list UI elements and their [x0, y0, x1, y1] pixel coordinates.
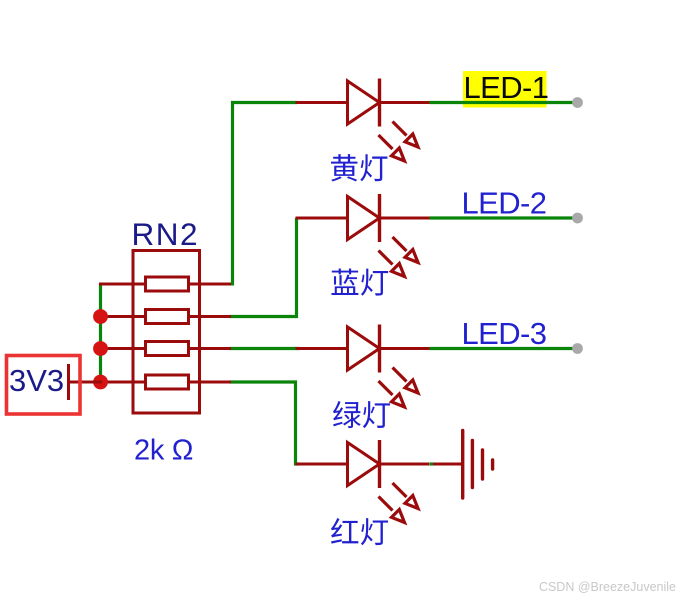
LED D-red: cathode bar	[378, 440, 381, 488]
RN2 internal resistor element 3	[146, 342, 189, 356]
svg-text:RN2: RN2	[132, 216, 200, 252]
terminal dot (net endpoint)	[572, 97, 583, 108]
LED D-yellow: cathode pin	[380, 101, 430, 104]
RN2 pin 5 (right)	[188, 381, 231, 384]
svg-text:CSDN @BreezeJuvenile: CSDN @BreezeJuvenile	[539, 580, 676, 594]
wire: net LED-4 from RN2 pin row 4 down to red LED	[230, 382, 300, 464]
wire: net LED-3 to terminal	[430, 347, 578, 350]
LED D-green: emission arrow	[393, 368, 419, 394]
LED D-green: cathode bar	[378, 325, 381, 373]
label red lamp 红灯	[331, 518, 388, 545]
LED D-blue: emission arrow	[379, 251, 405, 277]
LED D-blue: emission arrow	[393, 237, 419, 263]
label green lamp 绿灯	[333, 401, 390, 428]
wire: net LED-2 from RN2 pin row 2	[230, 218, 297, 317]
LED D-blue: triangle	[348, 197, 380, 240]
LED D-red: anode pin	[296, 463, 349, 466]
RN2 pin 4 (left)	[99, 381, 146, 384]
ground (power ground symbol)	[463, 431, 493, 499]
LED D-green: cathode pin	[380, 347, 430, 350]
LED D-yellow: cathode bar	[378, 79, 381, 127]
net label LED-1 highlight background	[463, 71, 547, 108]
LED D-yellow: emission arrow	[379, 135, 405, 161]
LED D-green: anode pin	[296, 347, 349, 350]
label yellow lamp 黄灯	[331, 154, 387, 181]
RN2 pin 7 (right)	[188, 315, 231, 318]
RN2 pin 8 (right)	[188, 283, 231, 286]
LED D-blue: cathode pin	[380, 217, 430, 220]
LED D-yellow: anode pin	[296, 101, 349, 104]
wire junction on 3V3 rail	[93, 375, 108, 390]
LED D-blue: anode pin	[296, 217, 349, 220]
svg-text:LED-1: LED-1	[464, 70, 549, 105]
LED D-green: emission arrow	[379, 381, 405, 407]
wire: short green stub at red LED cathode	[430, 462, 433, 465]
resistor network RN2: body outline	[133, 251, 200, 414]
RN2 internal resistor element 1	[146, 277, 189, 291]
RN2 internal resistor element 2	[146, 310, 189, 324]
RN2 pin 1 (left)	[99, 283, 146, 286]
wire: 3V3 rail vertical	[99, 283, 102, 384]
wire junction on 3V3 rail	[93, 309, 108, 324]
LED D-red: emission arrow	[393, 483, 419, 509]
LED D-red: emission arrow	[379, 497, 405, 523]
wire: net LED-3 from RN2 pin row 3	[230, 347, 300, 350]
wire: net LED-2 to terminal	[430, 216, 578, 219]
RN2 internal resistor element 4	[146, 375, 189, 389]
LED D-yellow: emission arrow	[393, 122, 419, 148]
LED D-yellow: triangle	[348, 81, 380, 124]
wire: net LED-1 riser from RN2 pin row 1	[233, 103, 298, 286]
svg-text:3V3: 3V3	[9, 363, 64, 398]
power port 3V3: box	[7, 356, 81, 415]
LED D-green: triangle	[348, 327, 380, 370]
svg-text:LED-2: LED-2	[462, 186, 547, 221]
terminal dot (net endpoint)	[572, 213, 583, 224]
LED D-red: cathode pin	[380, 463, 430, 466]
terminal dot (net endpoint)	[572, 343, 583, 354]
RN2 pin 6 (right)	[188, 347, 231, 350]
label blue lamp 蓝灯	[331, 269, 388, 296]
LED D-red: triangle	[348, 443, 380, 486]
power port 3V3: pin wire	[67, 381, 102, 384]
wire junction on 3V3 rail	[93, 341, 108, 356]
LED D-blue: cathode bar	[378, 194, 381, 242]
RN2 pin 3 (left)	[99, 347, 146, 350]
svg-text:2k Ω: 2k Ω	[134, 435, 193, 467]
wire: net LED-1 to terminal	[430, 101, 578, 104]
svg-text:LED-3: LED-3	[462, 316, 547, 351]
power port 3V3: pin bar	[67, 364, 70, 400]
RN2 pin 2 (left)	[99, 315, 146, 318]
wire: red LED cathode to ground	[433, 463, 462, 466]
